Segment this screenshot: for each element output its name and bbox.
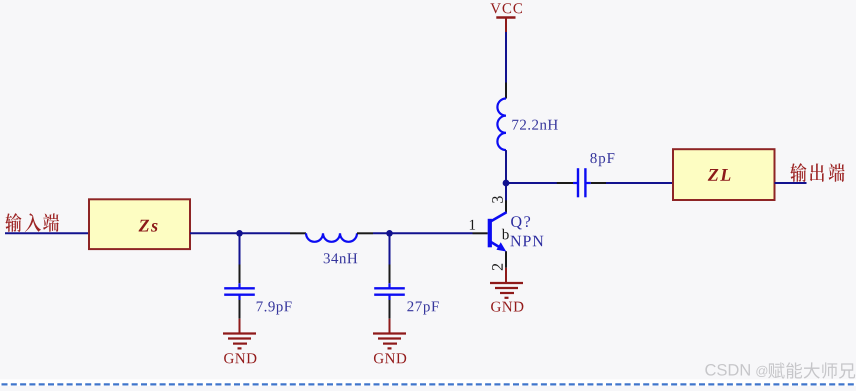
ground GND at C2 [373, 319, 406, 364]
wire node B to L1 [240, 232, 291, 234]
designator Q? [511, 216, 530, 229]
wire node C to Q1 base [390, 232, 473, 234]
wire ZL to output terminal [775, 182, 807, 184]
node C junction [386, 230, 393, 237]
wire node B down to C1 [239, 233, 241, 265]
wire VCC to L2 [505, 32, 507, 83]
wire Zs to node B [190, 232, 240, 234]
pin number 3 (collector) [492, 196, 503, 203]
wire node C down to C2 [389, 233, 391, 265]
ground GND at C1 [223, 319, 256, 364]
load block ZL [673, 149, 775, 200]
inductor L2 [497, 83, 506, 151]
wire input terminal to Zs [5, 232, 89, 234]
inductor L1 [290, 233, 373, 242]
pin number 2 (emitter) [492, 264, 503, 270]
wire node A down to Q1 collector [505, 183, 507, 201]
value label 27pF [407, 301, 438, 314]
pin name b [502, 229, 509, 240]
node B junction [236, 230, 243, 237]
wire node A to C3 [506, 182, 558, 184]
value label 7.9pF [257, 301, 292, 314]
value label 34nH [324, 253, 358, 263]
transistor Q1 NPN [473, 200, 507, 267]
wire C3 to ZL [606, 182, 673, 184]
capacitor C2 27pF [374, 265, 405, 319]
watermark [705, 362, 855, 378]
node A junction [503, 180, 510, 187]
net label input terminal [5, 213, 59, 232]
value label 72.2nH [512, 120, 557, 130]
power port VCC [490, 3, 522, 33]
type label NPN [510, 236, 543, 246]
capacitor C3 8pF [557, 168, 607, 197]
ground GND at Q1 emitter [490, 268, 523, 312]
sheet border dashed line [2, 383, 856, 385]
pin number 1 (base) [470, 220, 475, 230]
wire L2 to node A [505, 150, 507, 184]
wire L1 to node C [373, 232, 390, 234]
capacitor C1 7.9pF [224, 265, 255, 319]
source block Zs [89, 199, 190, 249]
value label 8pF [590, 153, 614, 166]
net label output terminal [790, 163, 844, 182]
